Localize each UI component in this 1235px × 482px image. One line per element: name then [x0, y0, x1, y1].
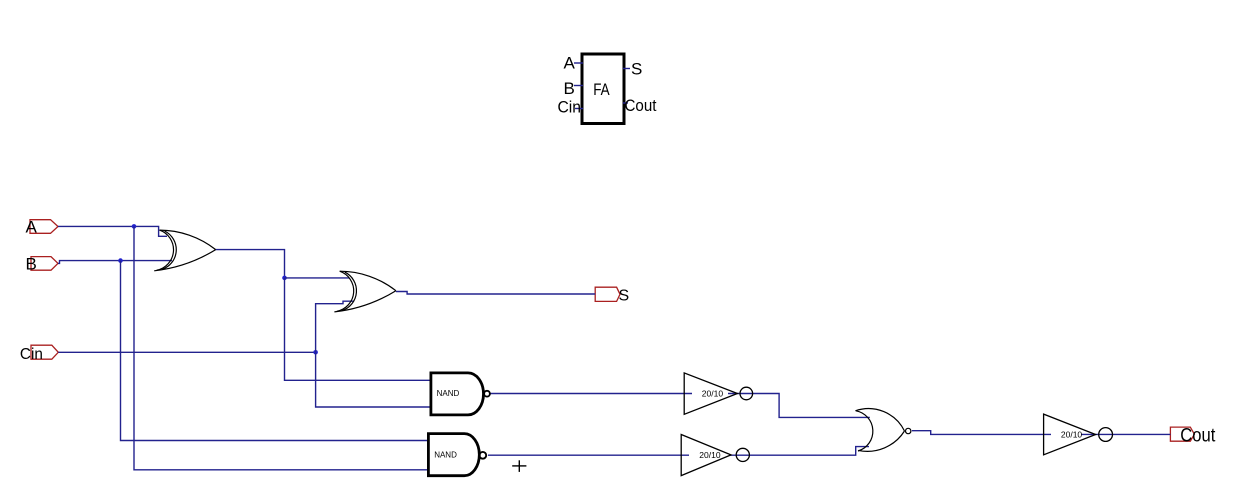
nand gate NAND1 [431, 373, 490, 415]
wire NAND2 output to inverter U2 [488, 454, 689, 456]
inverter U2 triangle [681, 435, 749, 476]
svg-text:20/10: 20/10 [702, 388, 724, 398]
wire inverter U2 output to NOR bottom input [729, 447, 869, 456]
xor gate X2 [334, 271, 396, 312]
svg-text:B: B [26, 255, 37, 274]
output port Cout [1170, 426, 1216, 447]
svg-text:Cin: Cin [558, 98, 582, 117]
svg-text:S: S [619, 288, 630, 305]
svg-text:20/10: 20/10 [699, 450, 721, 460]
FA pin Cout wire [623, 102, 628, 104]
wire XOR1 output to junction [216, 250, 285, 278]
svg-text:Cout: Cout [625, 96, 657, 115]
full-adder block symbol FA [582, 54, 624, 124]
svg-text:20/10: 20/10 [1061, 429, 1083, 439]
junction node B [118, 258, 123, 263]
wire Cin up to XOR2 lower input [316, 301, 354, 352]
wire B vertical to NAND2 upper input [121, 261, 429, 441]
junction node A [132, 224, 137, 229]
svg-text:NAND: NAND [434, 450, 457, 459]
wire Cin down to NAND1 lower input [316, 352, 431, 407]
wire to NAND1 upper input [285, 278, 432, 380]
xor gate X1 [154, 230, 216, 271]
FA pin S wire [623, 68, 630, 70]
wire inverter U3 output to Cout port [1081, 433, 1170, 435]
wire B port to XOR1 bottom input [58, 261, 172, 264]
wire Cin port to junction [58, 351, 315, 353]
svg-text:A: A [26, 218, 38, 237]
input port Cin [20, 345, 58, 363]
wire NAND1 output to inverter U1 [490, 393, 692, 395]
svg-text:FA: FA [593, 80, 610, 99]
FA pin Cin wire [575, 108, 583, 110]
inverter U1 triangle [684, 373, 752, 414]
svg-text:A: A [564, 54, 576, 73]
wire A vertical to NAND2 lower input [134, 226, 429, 469]
input port A [26, 218, 59, 237]
nor gate [855, 409, 911, 452]
svg-text:S: S [631, 60, 642, 79]
wire to XOR2 top input [285, 277, 350, 279]
junction node Cin [313, 350, 318, 355]
inverter U3 triangle [1044, 414, 1113, 455]
svg-text:B: B [564, 79, 575, 98]
svg-text:NAND: NAND [437, 389, 460, 398]
FA pin B wire [574, 85, 583, 87]
junction node XOR1 out [282, 276, 287, 281]
wire XOR2 output to S port [396, 292, 595, 295]
nand gate NAND2 [428, 434, 486, 476]
input port B [26, 255, 59, 274]
wire NOR output to inverter U3 [912, 431, 1051, 435]
output port S [595, 287, 629, 304]
svg-text:Cin: Cin [20, 346, 43, 363]
wire A port to XOR1 top input [58, 226, 167, 236]
plus cursor mark [512, 460, 526, 472]
wire inverter U1 output to NOR top input [728, 394, 870, 418]
FA pin A wire [574, 62, 583, 64]
svg-text:Cout: Cout [1180, 426, 1216, 447]
